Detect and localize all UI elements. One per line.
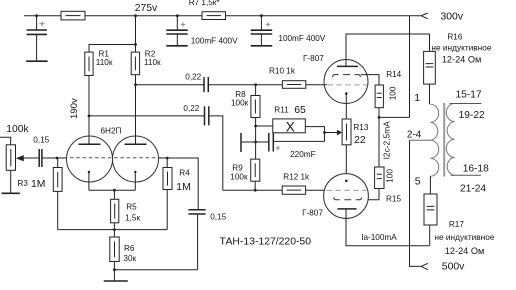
capacitor 0,15 (input) [39, 149, 42, 167]
svg-text:R9: R9 [232, 163, 243, 172]
node dot left 100mF [176, 14, 179, 17]
node dot R8 top [254, 83, 257, 86]
wire bias bus (1M bottom to R4 bottom) [58, 229, 168, 231]
potentiometer R3 [6, 145, 15, 171]
svg-text:R8: R8 [235, 90, 246, 99]
svg-text:6Н2П: 6Н2П [101, 126, 122, 135]
wiper arrow R13 [337, 130, 342, 136]
svg-text:110к: 110к [144, 58, 161, 67]
wire secondary bottom tap 21-24 [451, 174, 481, 176]
svg-text:R6: R6 [124, 244, 135, 253]
capacitor plate (cap to node, left of 220mF) [241, 133, 256, 152]
resistor R7 [202, 12, 226, 20]
node dot bias bus [113, 228, 116, 231]
capacitor C 100mF 400V (right) [251, 16, 273, 46]
node dot screen supply [378, 116, 381, 119]
svg-text:Г-807: Г-807 [303, 54, 324, 63]
node dot right 100mF [260, 14, 263, 17]
cathode dot lower Г-807 [345, 180, 348, 183]
transformer secondary winding [446, 104, 454, 176]
capacitor 220mF electrolytic [256, 133, 325, 152]
resistor R1 [85, 52, 93, 75]
wire 0,15 to left triode grid [42, 157, 66, 159]
svg-text:110к: 110к [96, 58, 113, 67]
svg-text:0,15: 0,15 [33, 135, 49, 144]
anode plate left triode [79, 143, 101, 145]
svg-text:ТАН-13-127/220-50: ТАН-13-127/220-50 [220, 236, 312, 247]
svg-text:R11: R11 [274, 105, 289, 114]
resistor R15 [375, 167, 384, 189]
resistor R17 [424, 194, 437, 225]
svg-text:Г-807: Г-807 [302, 209, 323, 218]
svg-text:100к: 100к [231, 99, 249, 108]
plus sign (far left cap) [39, 21, 44, 26]
node dot X box input [254, 125, 257, 128]
resistor R5 [111, 199, 119, 223]
tube Г-807 upper envelope [324, 60, 368, 104]
node dot left anode [88, 115, 91, 118]
svg-text:R15: R15 [386, 194, 401, 203]
grid dashed line 6Н2П [64, 157, 162, 159]
node dot 220mF [254, 141, 257, 144]
wire top rail left segment [24, 15, 61, 17]
node dot R1 branch [134, 43, 137, 46]
rheostat R11 X box [273, 119, 306, 133]
capacitor 0,22 (lower coupling) [205, 106, 209, 125]
wire screen to R14 [361, 75, 379, 85]
svg-text:R13: R13 [353, 123, 368, 132]
wire R2 bottom to right triode anode [135, 75, 137, 145]
wire 2-4 tap line [410, 139, 431, 141]
wire screen node to rail [379, 116, 410, 118]
svg-text:0,15: 0,15 [210, 213, 226, 222]
resistor R14 [375, 85, 383, 108]
wire right rail lower (2-4 tap to 500v) [410, 140, 421, 266]
svg-text:Ia-100mA: Ia-100mA [361, 233, 397, 242]
node 300v arrowhead [421, 13, 428, 19]
wire right cathode lead [134, 172, 136, 190]
node dot R6 bottom [113, 268, 116, 271]
resistor (top-left, unlabeled) [61, 11, 85, 20]
wire R1 bottom to left triode anode [88, 76, 90, 145]
resistor R8 [251, 96, 260, 118]
anode plate right triode [125, 143, 147, 145]
wire cathode bus to R5 [113, 190, 115, 199]
svg-text:100: 100 [387, 86, 397, 100]
resistor R10 [282, 81, 305, 89]
capacitor C 100mF 400V (left) [166, 16, 187, 46]
svg-text:1M: 1M [31, 179, 45, 190]
svg-text:0,22: 0,22 [185, 73, 201, 82]
wire anode node to upper 0,22 cap [136, 84, 204, 86]
svg-text:100mF 400V: 100mF 400V [191, 37, 238, 46]
wire left anode node to lower 0,22 cap [89, 115, 204, 117]
resistor R16 [424, 51, 436, 84]
svg-text:21-24: 21-24 [460, 183, 486, 194]
svg-text:5: 5 [415, 176, 421, 188]
wire upper 0,22 to R10 [209, 84, 283, 86]
potentiometer R13 [342, 119, 351, 145]
node dot input grid [56, 157, 59, 160]
wire 1M bottom to cathode bus [57, 191, 59, 229]
resistor R6 [110, 237, 119, 262]
wire cathode bus [89, 189, 135, 191]
cathode dot right triode [134, 171, 136, 173]
svg-text:12-24 Ом: 12-24 Ом [445, 246, 485, 256]
svg-text:не индуктивное: не индуктивное [431, 42, 491, 52]
svg-text:100mF 400V: 100mF 400V [278, 34, 325, 43]
wire node to X box [256, 125, 273, 127]
resistor 1M (left grid leak) [53, 168, 62, 192]
svg-text:1,5к: 1,5к [125, 214, 140, 223]
svg-text:R17: R17 [449, 220, 464, 229]
plus sign (right 100mF) [266, 22, 271, 26]
svg-text:0,22: 0,22 [183, 104, 199, 113]
wire R6 bottom [113, 262, 115, 281]
wiper arrow R3 [16, 155, 24, 161]
svg-text:R12 1k: R12 1k [283, 172, 310, 181]
svg-text:30к: 30к [123, 254, 136, 263]
transformer core [443, 103, 445, 177]
screen grid dashes lower Г-807 [334, 197, 362, 199]
wire R17 bottom lead [429, 225, 431, 246]
svg-text:16-18: 16-18 [463, 164, 489, 175]
resistor R2 [131, 52, 139, 75]
wire 275v node vertical [135, 16, 137, 52]
wire R3 bottom to ground [10, 170, 12, 193]
svg-text:220mF: 220mF [290, 150, 315, 159]
ground bar (left 100mF) [166, 45, 187, 47]
tube 6Н2П left triode envelope [67, 136, 113, 182]
svg-text:R14: R14 [386, 70, 401, 79]
wire upper anode to y34 bus [346, 34, 430, 66]
node dot right anode branch [134, 83, 137, 86]
node dot R4 top [166, 157, 169, 160]
wire secondary top tap 15-17 [450, 103, 482, 105]
wire R6 node to 0,15 cap branch [114, 269, 197, 271]
wire 0,15 bottom [197, 214, 199, 269]
node dot R13 wiper line [323, 131, 326, 134]
transformer primary winding [430, 104, 438, 176]
wire R12 to lower tube grid [306, 189, 325, 191]
wire primary bottom to R17 [429, 176, 431, 194]
svg-text:R16: R16 [447, 32, 462, 41]
svg-text:22: 22 [354, 135, 366, 146]
wire R8 top [255, 85, 257, 96]
node dot top rail left cap [35, 14, 38, 17]
svg-text:1: 1 [414, 92, 420, 104]
wire R5 bottom to R6 top [113, 223, 115, 237]
wire top rail right segment to 300v arrow [226, 15, 421, 17]
capacitor electrolytic (far left filter cap) [27, 16, 47, 61]
cathode dot left triode [88, 171, 90, 173]
svg-text:275v: 275v [135, 3, 158, 14]
resistor R12 [282, 186, 305, 194]
wire lower 0,22 down to R12 row [209, 116, 223, 190]
wire R16 top lead [429, 34, 431, 51]
control grid dashes upper Г-807 [327, 84, 367, 86]
node dot R9 bottom [254, 189, 257, 192]
svg-text:X: X [286, 119, 295, 134]
node 500v arrowhead [421, 263, 428, 269]
svg-text:R3: R3 [18, 179, 29, 188]
svg-text:19-22: 19-22 [459, 110, 485, 121]
svg-text:100k: 100k [6, 124, 29, 135]
tube 6Н2П right triode envelope [113, 136, 159, 182]
svg-text:R10 1k: R10 1k [269, 66, 296, 75]
ground symbol (R6) [104, 280, 128, 282]
plus sign (220mF) [276, 146, 281, 151]
svg-text:не индуктивное: не индуктивное [434, 232, 494, 242]
svg-text:300v: 300v [441, 11, 464, 22]
wire R10 to upper tube grid [306, 84, 327, 86]
wire upper cathode to R13 [345, 94, 347, 120]
svg-text:R5: R5 [126, 203, 137, 212]
svg-text:1M: 1M [176, 182, 190, 193]
wire R9 bottom [254, 181, 256, 190]
wire arrow to R13 wiper [325, 132, 338, 134]
ground bar (R3) [2, 192, 20, 194]
control grid dashes lower Г-807 [327, 189, 367, 191]
capacitor 0,15 (to ТАН) [188, 210, 205, 214]
svg-text:100: 100 [385, 169, 395, 183]
svg-text:R4: R4 [179, 169, 190, 178]
resistor R4 [163, 168, 172, 190]
wire top rail middle segment [85, 15, 202, 17]
cathode dot upper Г-807 [345, 92, 348, 95]
svg-text:100к: 100к [230, 172, 248, 181]
wire branch to R1 top [89, 45, 136, 53]
node R4 grid junction wire [159, 158, 199, 209]
wire R4 bottom [166, 190, 168, 230]
wire X box output [305, 127, 324, 142]
screen grid dashes upper Г-807 [333, 75, 361, 77]
wire R14 bottom [378, 108, 380, 118]
anode plate lower Г-807 [337, 208, 356, 210]
svg-text:15-17: 15-17 [456, 89, 482, 100]
wire R4 top [166, 158, 168, 168]
svg-text:I2c-2,5mA: I2c-2,5mA [382, 121, 392, 160]
wire input from left edge [0, 137, 11, 145]
svg-text:2-4: 2-4 [407, 130, 422, 141]
resistor R9 [251, 159, 260, 181]
wire R15 bottom to lower screen [368, 189, 379, 200]
wire R16 bottom to primary tap 1 [429, 84, 431, 104]
node dot 275v [134, 14, 137, 17]
wire R3 wiper to 0,15 cap [24, 157, 39, 159]
wire grid bus to R12 [223, 189, 282, 191]
capacitor 0,22 (upper coupling) [204, 77, 208, 92]
anode plate upper Г-807 [337, 65, 358, 67]
svg-text:190v: 190v [69, 98, 80, 119]
ground bar (right 100mF) [251, 45, 273, 47]
svg-text:R7 1,5к*: R7 1,5к* [189, 0, 221, 7]
wire screen node down to R15 [378, 117, 380, 167]
svg-text:500v: 500v [442, 262, 465, 273]
node dot cathode bus [113, 189, 116, 192]
wire R8 bottom to R9 top [255, 118, 257, 160]
ground bar (far left cap) [26, 60, 47, 62]
svg-text:65: 65 [294, 105, 306, 116]
svg-text:12-24 Ом: 12-24 Ом [442, 55, 482, 65]
wire right rail upper (300v to screen node) [409, 16, 411, 118]
wire left cathode lead [88, 172, 90, 190]
wire lower anode down and right [346, 209, 430, 246]
wire R13 bottom to lower tube [345, 145, 347, 174]
wire 1M top [57, 158, 59, 168]
plus sign (left 100mF) [181, 22, 186, 26]
tube Г-807 lower envelope [324, 174, 369, 219]
